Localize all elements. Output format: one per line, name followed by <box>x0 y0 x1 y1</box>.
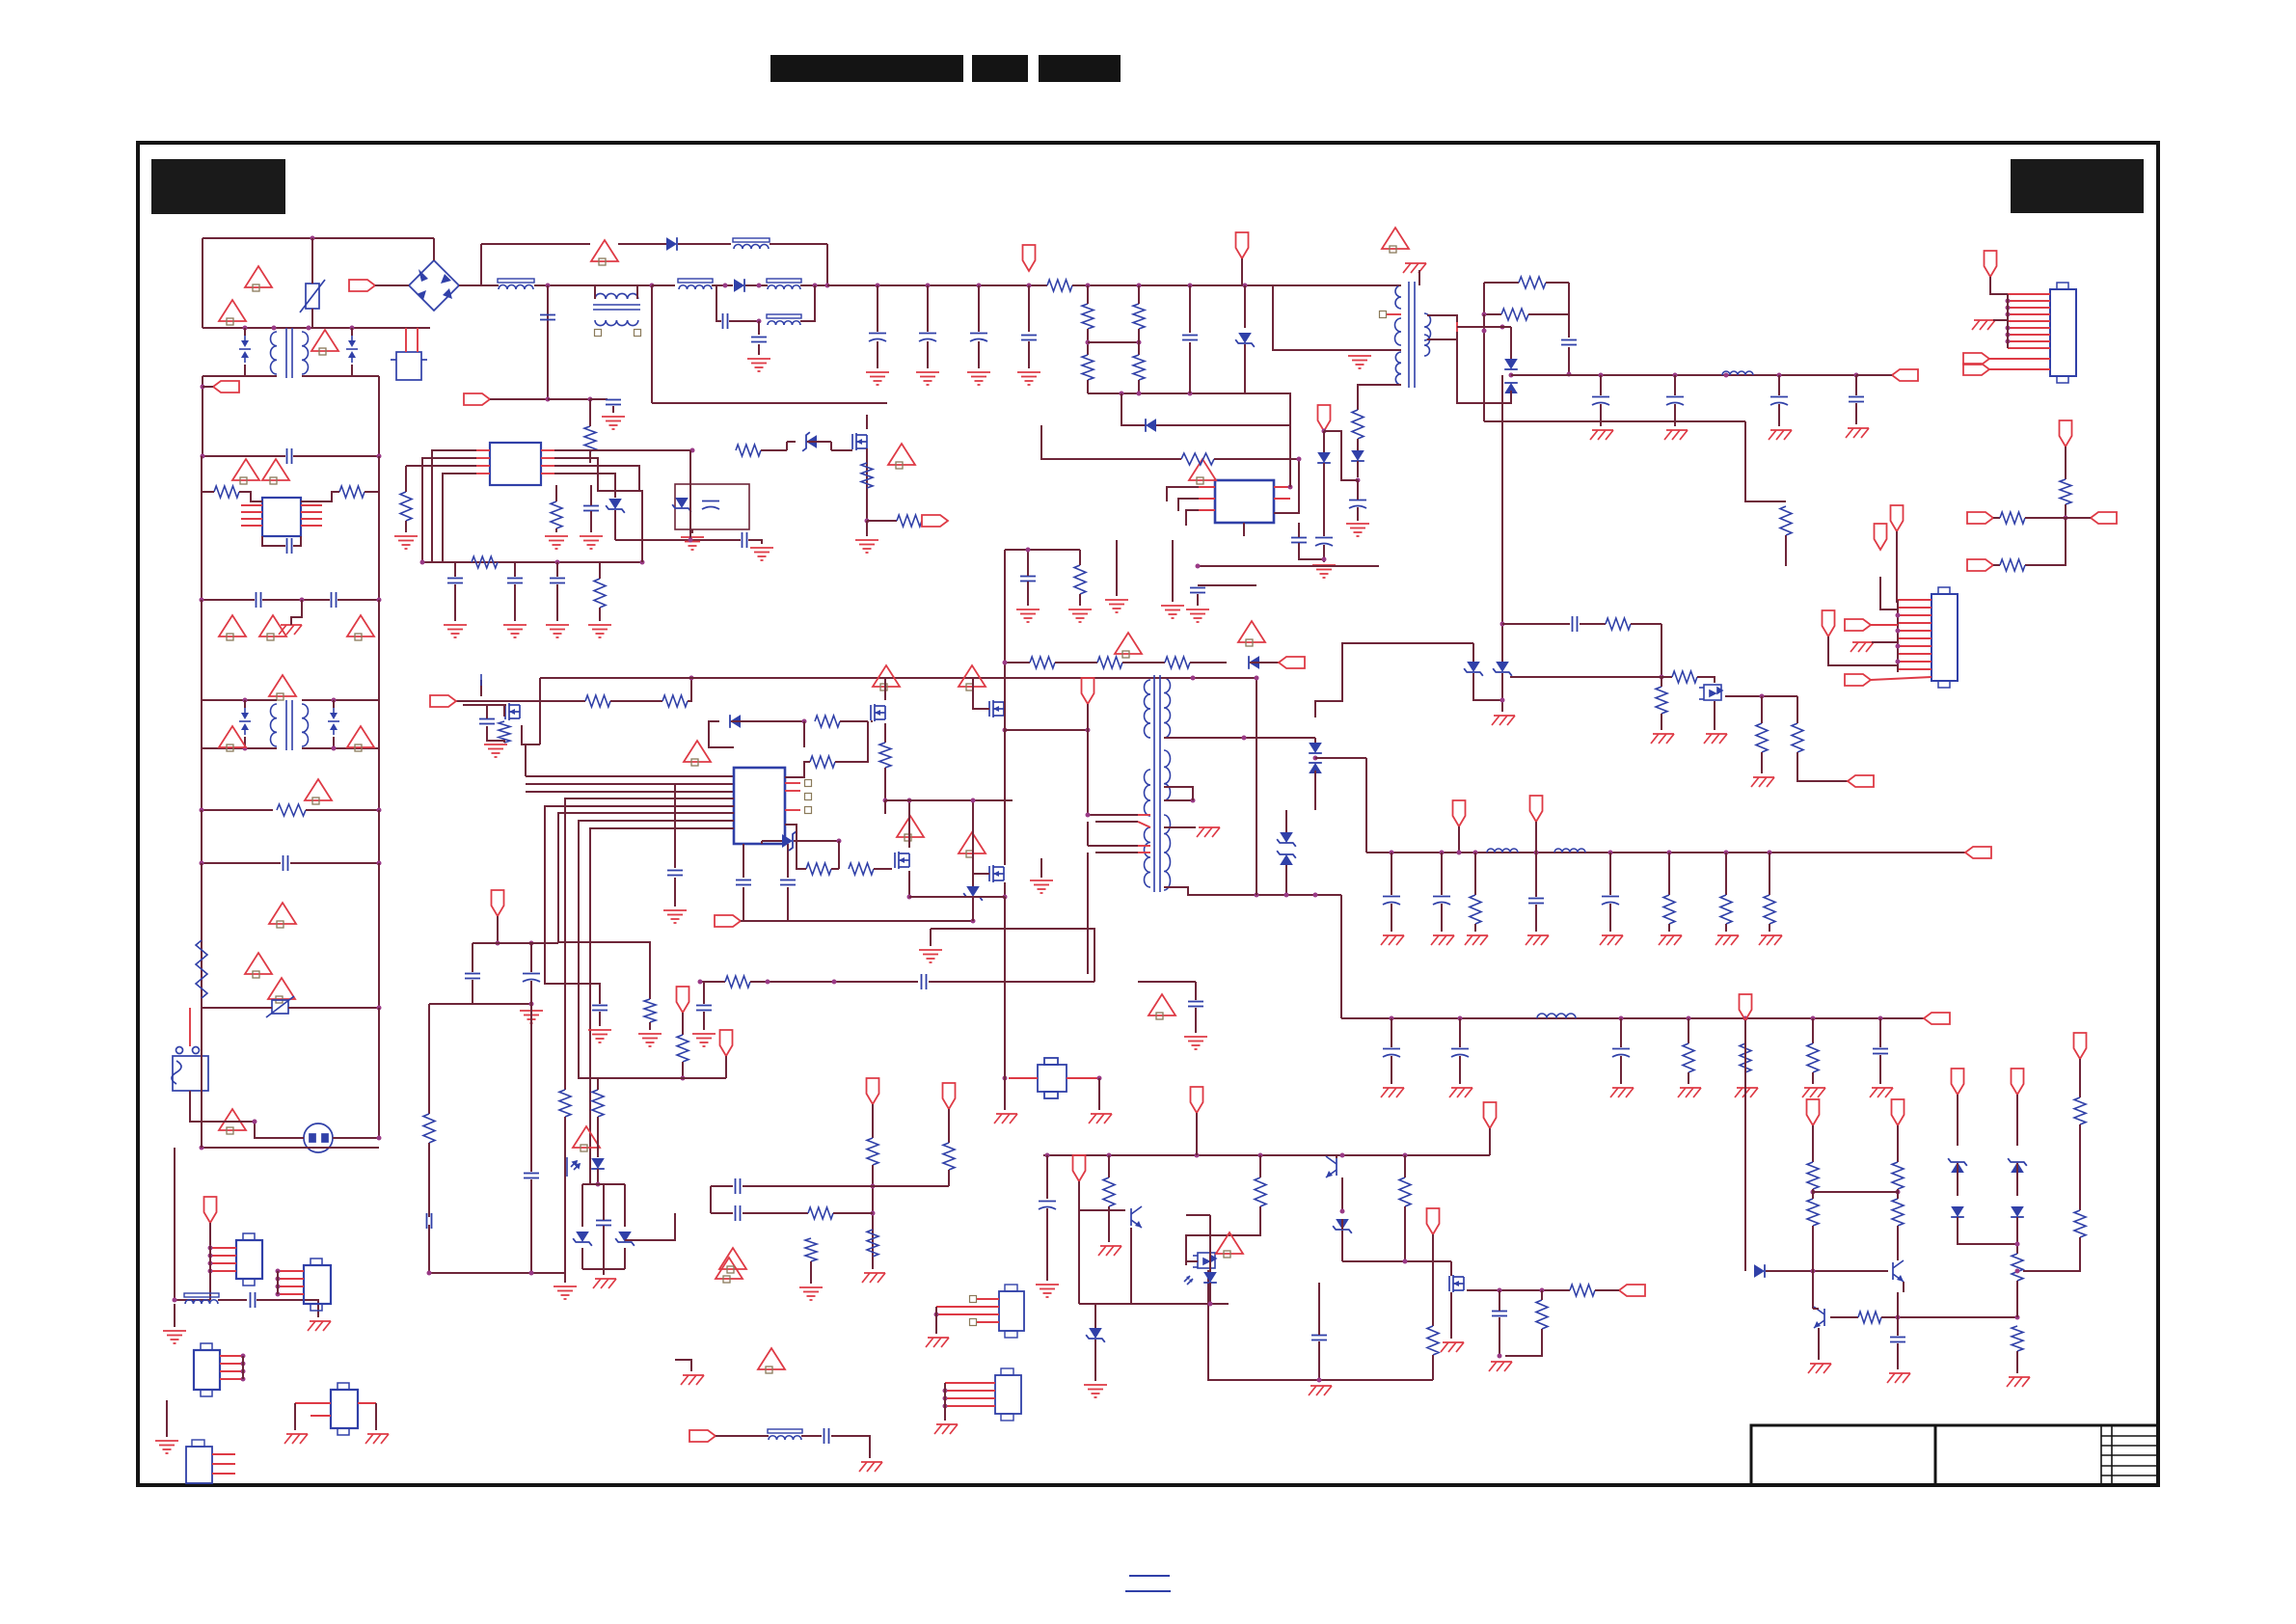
wire <box>1098 1078 1100 1110</box>
warning triangle W4 <box>262 459 289 484</box>
wire <box>931 929 1094 982</box>
ground G9 <box>394 536 418 549</box>
wire <box>826 244 828 285</box>
wire <box>301 492 339 501</box>
chassis ground C4 <box>1846 428 1869 438</box>
power flag P12d <box>1073 1155 1086 1181</box>
wire <box>1122 662 1165 663</box>
wire <box>785 790 800 792</box>
wire <box>293 536 301 546</box>
wire <box>885 799 973 801</box>
pin CN2.4 <box>1898 622 1931 624</box>
wire <box>564 1117 566 1283</box>
wire <box>338 599 379 601</box>
wire <box>1285 810 1287 826</box>
node junction <box>837 839 842 844</box>
ground G18 <box>484 744 507 757</box>
wire <box>927 285 929 332</box>
resistor R6h <box>849 863 874 875</box>
warning triangle W5 <box>219 615 246 640</box>
wire <box>351 328 353 336</box>
pin CN1.7 <box>2008 334 2050 336</box>
node junction <box>2006 299 2011 304</box>
wire <box>1195 982 1197 1000</box>
winding T4 pri-b <box>1395 318 1402 345</box>
wire <box>1427 332 1457 339</box>
wire <box>1041 425 1181 459</box>
capacitor C4b <box>1315 538 1333 547</box>
wire <box>291 600 302 625</box>
inductor L7a <box>1487 849 1518 853</box>
capacitor CY1 <box>257 592 261 608</box>
node junction <box>208 1269 213 1274</box>
wire <box>610 700 662 702</box>
wire <box>1005 549 1080 551</box>
wire <box>2025 518 2066 565</box>
capacitor C13a <box>465 974 480 979</box>
wire <box>1199 486 1215 488</box>
ground <box>1084 1385 1107 1397</box>
wire <box>476 457 490 459</box>
wire <box>948 1170 950 1186</box>
chassis ground CN1 <box>1972 320 1995 330</box>
wire <box>1387 313 1401 315</box>
chassis ground <box>284 1434 308 1444</box>
capacitor C3e <box>919 334 936 342</box>
net connector ACN <box>213 381 239 392</box>
ground G11 <box>580 536 603 549</box>
wire <box>833 1212 873 1214</box>
ground G6 <box>1017 372 1040 385</box>
wire <box>884 800 886 814</box>
node junction <box>300 598 305 603</box>
wire <box>1196 1113 1198 1155</box>
capacitor Co1443 <box>1383 897 1400 906</box>
wire <box>1190 662 1227 663</box>
wire <box>202 599 255 601</box>
wire <box>1197 594 1199 606</box>
wire <box>725 1056 727 1078</box>
redaction box (top mid) <box>972 55 1028 82</box>
wire <box>750 981 918 983</box>
pin CN7.3 <box>936 1313 999 1315</box>
wire <box>1087 704 1089 730</box>
warning triangle W6 <box>259 615 286 640</box>
wire <box>429 1003 473 1005</box>
inductor L3e <box>767 314 801 325</box>
wire U5 pin6 <box>558 813 734 999</box>
power flag CN2d <box>1823 610 1835 636</box>
wire <box>1535 822 1537 853</box>
zener ZD6c <box>1277 832 1296 847</box>
warning triangle W11 <box>305 779 332 804</box>
capacitor C11a <box>1890 1338 1905 1342</box>
chassis ground C3 <box>1769 430 1792 440</box>
wire <box>541 473 554 474</box>
wire <box>295 1402 331 1404</box>
wire <box>871 720 873 722</box>
wire <box>1457 326 1502 328</box>
wire U1 pinL3 <box>406 465 476 467</box>
node junction <box>377 861 382 866</box>
node junction <box>1896 1315 1901 1320</box>
wire <box>555 528 557 532</box>
wire (fb bus) <box>1198 565 1379 567</box>
wire <box>1088 341 1139 343</box>
wire <box>244 737 246 748</box>
wire <box>1541 1290 1543 1300</box>
node junction <box>1086 813 1091 818</box>
wire <box>2066 517 2091 519</box>
node junction <box>1027 284 1032 288</box>
wire <box>1957 1205 1958 1207</box>
wire <box>1450 1261 1452 1276</box>
capacitor Cs1737 <box>1666 397 1684 406</box>
optocoupler U12 arrows <box>1184 1276 1193 1285</box>
node junction <box>757 284 762 288</box>
pin CN1.4 <box>2008 313 2050 315</box>
diode D6c <box>1309 743 1322 753</box>
wire <box>831 1436 870 1458</box>
power flag Z1 <box>1952 1069 1964 1095</box>
wire <box>422 561 642 563</box>
wire <box>1256 738 1257 895</box>
wire <box>1323 431 1325 452</box>
wire <box>1457 339 1511 403</box>
wire <box>476 465 490 467</box>
resistor R12g <box>1399 1177 1411 1206</box>
wire <box>1769 853 1770 895</box>
ground <box>681 537 704 550</box>
wire <box>1186 510 1199 526</box>
ground G21 <box>1068 609 1092 622</box>
wire <box>1341 1231 1343 1261</box>
wire <box>599 1012 601 1026</box>
wire <box>884 768 886 800</box>
pin CN2.5 <box>1898 630 1931 632</box>
wire <box>1778 404 1780 426</box>
chassis ground <box>1808 1364 1831 1373</box>
wire <box>1094 1340 1096 1381</box>
wire <box>731 720 804 722</box>
wire <box>480 680 482 696</box>
node junction <box>1390 1016 1394 1021</box>
node junction <box>201 454 205 459</box>
wire <box>2079 1059 2081 1097</box>
resistor R11b <box>1807 1199 1819 1226</box>
wire <box>1595 1289 1619 1291</box>
wire <box>522 725 540 744</box>
pin CN3.2 <box>210 1255 236 1257</box>
wire <box>290 862 379 864</box>
capacitor C10e <box>592 1006 608 1011</box>
wire <box>835 721 868 762</box>
node junction <box>529 941 534 946</box>
node junction <box>723 284 728 288</box>
pin pad T4 <box>1380 311 1387 318</box>
ground G13 <box>444 625 467 637</box>
resistor R13b <box>592 1090 604 1117</box>
inductor L7b <box>1554 849 1585 853</box>
chassis ground C19 <box>1735 1088 1758 1097</box>
power flag Q8c <box>1892 1099 1904 1125</box>
wire <box>785 782 800 784</box>
chassis ground <box>279 625 302 635</box>
wire <box>203 455 285 457</box>
wire <box>428 1225 430 1273</box>
resistor R5g <box>594 579 606 608</box>
wire <box>277 1271 279 1294</box>
inductor L4a <box>1722 371 1753 375</box>
node junction <box>1188 392 1193 396</box>
wire <box>1087 329 1089 355</box>
wire <box>1432 1234 1434 1326</box>
wire <box>1879 1055 1881 1084</box>
diode D11a <box>1754 1264 1765 1278</box>
node junction <box>1196 564 1201 569</box>
capacitor C3d <box>869 334 886 342</box>
wire <box>909 896 1005 898</box>
chassis ground C16 <box>1449 1088 1472 1097</box>
warning triangle W21 <box>873 665 900 690</box>
wire <box>1028 285 1030 332</box>
connector CN6 tab <box>338 1383 349 1435</box>
wire <box>1879 1018 1881 1047</box>
node junction <box>1660 675 1664 680</box>
wire <box>1404 1206 1406 1261</box>
wire U5 pin5 <box>545 806 734 1004</box>
wire <box>530 981 532 1007</box>
chassis ground <box>365 1434 389 1444</box>
capacitor C13d <box>427 1213 432 1229</box>
pin CN9.3 <box>212 1473 235 1475</box>
capacitor C2b <box>284 855 288 871</box>
transformer core T5 <box>1154 675 1160 892</box>
winding T2 primary <box>271 704 278 746</box>
node junction <box>420 560 425 565</box>
wire <box>242 1356 244 1379</box>
winding T5 pri-b <box>1145 770 1151 816</box>
wire <box>201 456 203 600</box>
ground G20 <box>1016 609 1040 622</box>
winding T2 secondary <box>302 704 309 746</box>
wire <box>1897 1226 1899 1260</box>
regulator U10 <box>1038 1058 1067 1098</box>
diode D6a <box>730 715 741 728</box>
node junction <box>1003 1076 1008 1081</box>
capacitor C13b <box>523 974 540 983</box>
wire <box>1391 1056 1392 1084</box>
resistor R11c <box>1892 1162 1904 1189</box>
node junction <box>1120 392 1124 396</box>
wire <box>1456 322 1458 332</box>
resistor R3e <box>1133 355 1145 380</box>
node junction <box>596 1182 601 1187</box>
capacitor C6a <box>479 719 495 724</box>
wire <box>428 1143 430 1217</box>
node junction <box>1777 373 1782 378</box>
wire <box>1027 582 1029 606</box>
node junction <box>307 326 311 331</box>
MOSFET Q1 <box>852 433 867 450</box>
wire <box>624 1248 626 1269</box>
pin CN3.3 <box>210 1262 236 1264</box>
wire <box>877 341 878 368</box>
node junction <box>813 284 818 288</box>
ground G23 <box>799 1287 823 1300</box>
node junction <box>588 397 593 402</box>
wire <box>1094 1304 1096 1328</box>
wire <box>1046 1208 1048 1281</box>
node junction <box>1284 893 1289 898</box>
node junction <box>496 941 500 946</box>
wire <box>1164 677 1193 679</box>
wire <box>591 284 652 286</box>
node junction <box>766 980 770 985</box>
zener ZD11b <box>2008 1158 2027 1173</box>
wire <box>652 402 887 404</box>
wire <box>597 1078 599 1090</box>
wire <box>1957 1095 1958 1146</box>
wire <box>1138 845 1150 847</box>
wire <box>530 1179 532 1273</box>
capacitor Co1495 <box>1433 897 1450 906</box>
wire <box>1474 924 1476 932</box>
wire <box>554 466 639 491</box>
node junction <box>243 746 248 751</box>
wire <box>1688 1072 1689 1084</box>
wire <box>682 1062 684 1078</box>
ground <box>163 1331 186 1343</box>
pin U2.8 <box>301 525 322 527</box>
wire <box>302 699 379 701</box>
net connector CN2e <box>1845 674 1871 686</box>
wire <box>625 1213 675 1240</box>
capacitor C5a <box>583 506 599 511</box>
capacitor CX1 <box>287 448 292 464</box>
wire <box>454 584 456 621</box>
wire <box>202 1007 272 1009</box>
chassis ground <box>593 1279 616 1288</box>
ground G17 <box>855 540 878 553</box>
wire <box>1761 752 1763 773</box>
warning triangle W28 <box>758 1348 785 1373</box>
wire <box>526 744 540 776</box>
capacitor C12d <box>1311 1336 1327 1340</box>
wire <box>1484 282 1519 284</box>
wire <box>1285 826 1287 832</box>
wire <box>547 285 549 399</box>
wire <box>203 237 434 239</box>
wire <box>1856 374 1892 376</box>
capacitor C3g <box>1021 336 1037 340</box>
chassis ground T4 shield <box>1403 263 1426 273</box>
chassis ground <box>1309 1386 1332 1395</box>
power flag ADJ <box>2060 420 2072 447</box>
wire <box>872 1257 874 1269</box>
power flag Q8b <box>1807 1099 1820 1125</box>
wire <box>1138 822 1150 827</box>
resistor R3a <box>1047 280 1072 291</box>
wire <box>333 1008 379 1138</box>
wire <box>1256 393 1290 420</box>
node junction <box>1242 736 1247 741</box>
wire <box>1404 1155 1406 1177</box>
node junction <box>1500 325 1505 330</box>
wire <box>1459 1018 1461 1047</box>
wire <box>1499 1290 1500 1311</box>
winding T5 sec-b <box>1164 750 1171 800</box>
wire <box>688 678 691 701</box>
wire <box>1324 431 1358 480</box>
chassis ground <box>859 1462 882 1472</box>
wire <box>556 562 558 577</box>
wire <box>1661 676 1672 678</box>
wire <box>624 1184 626 1227</box>
pin U2.1 <box>241 504 262 506</box>
diode D3c <box>1146 419 1156 432</box>
wire <box>365 491 379 493</box>
resistor R10g <box>644 999 656 1022</box>
wire <box>1259 1155 1261 1177</box>
connector CN4 <box>304 1265 331 1304</box>
zener ZD13a <box>573 1232 592 1246</box>
ground G26 <box>692 1034 716 1046</box>
node junction <box>1322 429 1327 434</box>
wire <box>378 863 380 1008</box>
wire <box>581 1184 583 1227</box>
chassis ground <box>2007 1377 2030 1387</box>
node junction <box>1297 457 1302 462</box>
wire <box>1903 1282 1904 1292</box>
fuse F1 <box>391 352 427 380</box>
wire <box>1004 717 1006 865</box>
wire <box>800 284 827 286</box>
wire <box>1005 662 1030 663</box>
net connector PROT <box>1848 775 1874 787</box>
node junction <box>377 1006 382 1011</box>
relay K1 <box>172 1047 208 1092</box>
wire <box>1285 865 1287 895</box>
chassis ground C15 <box>1381 1088 1404 1097</box>
resistor R11i <box>2074 1210 2086 1237</box>
wire <box>311 238 313 284</box>
pin CN8.4 <box>945 1405 995 1407</box>
capacitor Cs3 <box>1849 397 1864 402</box>
node junction <box>546 397 551 402</box>
wire <box>463 704 506 706</box>
wire <box>203 375 277 377</box>
wire <box>1427 315 1457 322</box>
power flag VCC <box>1318 405 1331 431</box>
pin CN1.1 <box>2008 293 2050 295</box>
wire <box>1004 700 1006 717</box>
resistor R6m <box>1606 618 1631 630</box>
chassis ground C12 <box>1659 935 1682 945</box>
node junction <box>1026 548 1031 553</box>
wire <box>972 868 974 886</box>
surge arrester SA1 <box>239 336 251 363</box>
wire <box>1989 358 2050 360</box>
wire T5 fold1 <box>1088 814 1138 816</box>
wire <box>831 868 839 870</box>
wire <box>2065 504 2066 518</box>
wire <box>433 238 435 260</box>
wire <box>190 1091 304 1138</box>
wire <box>1896 531 1898 603</box>
inductor L3c <box>678 279 713 289</box>
wire <box>803 721 805 747</box>
